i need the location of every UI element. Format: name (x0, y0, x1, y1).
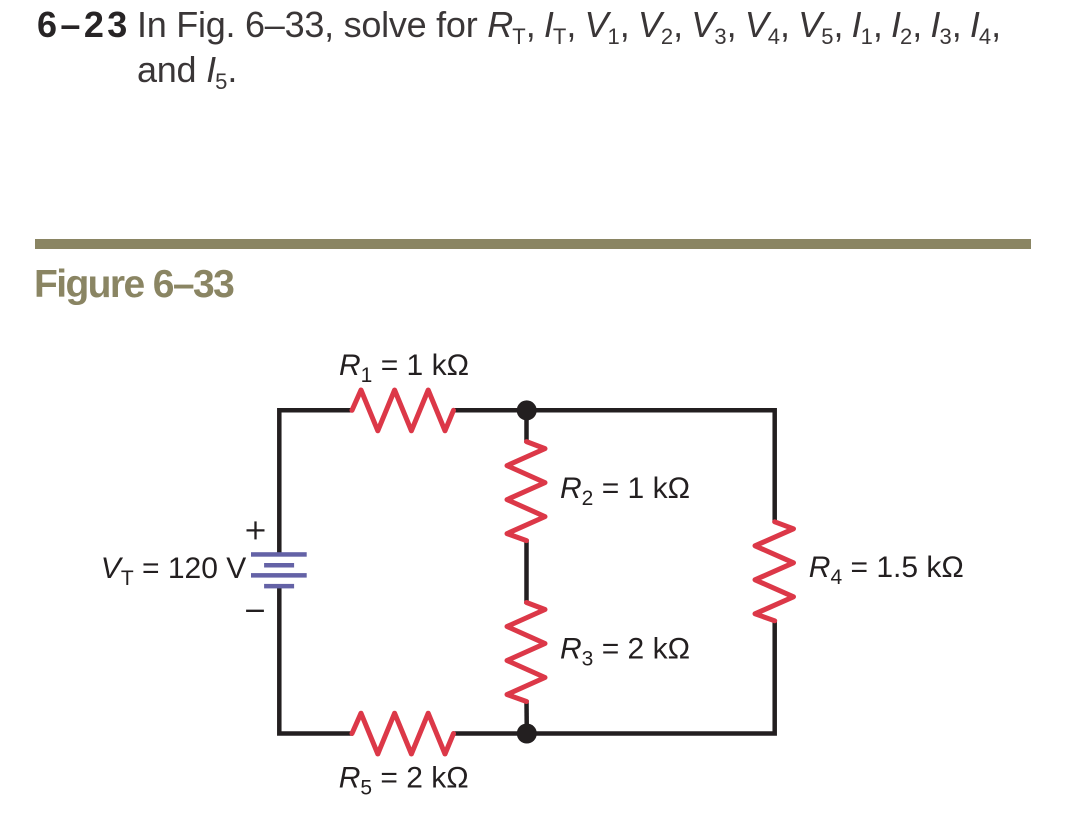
svg-text:R2 = 1 kΩ: R2 = 1 kΩ (560, 472, 690, 510)
resistor R2 zigzag (507, 442, 545, 541)
wire: top node to top-right corner down to R4 (527, 410, 775, 523)
resistor R3 zigzag (507, 603, 545, 702)
problem statement text (137, 5, 1000, 95)
label R3 = 2 kOhm (560, 633, 690, 671)
resistor R5 zigzag (352, 713, 454, 754)
wire: middle stub from top node down to R2 (524, 410, 529, 442)
svg-text:R4 = 1.5 kΩ: R4 = 1.5 kΩ (809, 551, 964, 589)
wire: middle stub from R3 down to bottom node (524, 700, 529, 733)
svg-text:R3 = 2 kΩ: R3 = 2 kΩ (560, 633, 690, 671)
svg-text:R1 = 1 kΩ: R1 = 1 kΩ (339, 349, 469, 387)
label VT = 120 V (101, 552, 246, 590)
battery V_T plate 3 long (251, 573, 307, 578)
label R5 = 2 kOhm (339, 761, 469, 799)
battery minus polarity mark (246, 610, 264, 612)
battery plus polarity mark (247, 521, 265, 539)
label R2 = 1 kOhm (560, 472, 690, 510)
svg-text:VT = 120 V: VT = 120 V (101, 552, 246, 590)
figure caption Figure 6-33 (34, 263, 233, 306)
wire: R5 to bottom-left corner up to battery bottom (279, 588, 353, 734)
battery V_T plate 4 short (264, 584, 294, 589)
label R1 = 1 kOhm (339, 349, 469, 387)
resistor R4 zigzag (755, 522, 794, 621)
olive divider bar (35, 239, 1031, 249)
wire: middle segment between R2 and R3 (524, 539, 529, 603)
problem number 6-23 (37, 5, 131, 45)
battery V_T plate 1 long (251, 552, 307, 557)
wire: top segment R1 to top node (453, 408, 527, 413)
node A top junction dot (517, 400, 537, 420)
resistor R1 zigzag (352, 390, 454, 431)
wire: R4 to bottom-right corner to bottom node (527, 620, 775, 734)
wire: bottom node to R5 (453, 731, 527, 736)
wire: left side top (battery to top-left corner to R1) (279, 410, 353, 553)
node B bottom junction dot (517, 724, 537, 744)
svg-text:R5 = 2 kΩ: R5 = 2 kΩ (339, 761, 469, 799)
label R4 = 1.5 kOhm (809, 551, 964, 589)
battery V_T plate 2 short (264, 563, 294, 568)
